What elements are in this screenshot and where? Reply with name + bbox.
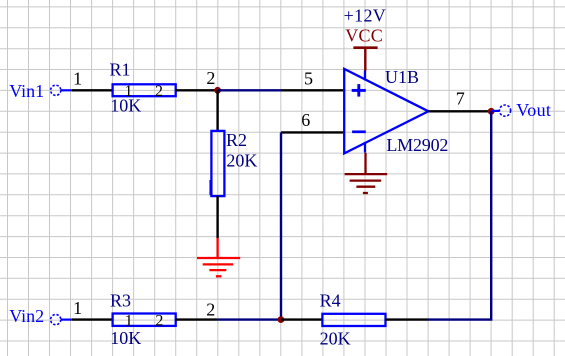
- port Vout: [492, 100, 551, 120]
- wire R2 to ground: [216, 196, 218, 238]
- svg-text:20K: 20K: [320, 329, 351, 349]
- pin 7 of U1B (output): [428, 110, 491, 112]
- svg-text:VCC: VCC: [345, 26, 383, 46]
- pin 1 of R4: [281, 318, 323, 320]
- svg-text:R2: R2: [226, 130, 247, 150]
- wire output to R4 (feedback): [428, 111, 492, 319]
- junction node 2: [214, 87, 221, 94]
- svg-text:20K: 20K: [226, 151, 257, 171]
- feedback wire pin6 down to node: [280, 132, 282, 319]
- ground (op-amp dark red): [345, 153, 388, 193]
- junction at output: [488, 108, 495, 115]
- junction node (inverting input): [278, 316, 285, 323]
- svg-text:R4: R4: [320, 290, 341, 310]
- op-amp U1B: [344, 69, 428, 153]
- svg-text:LM2902: LM2902: [386, 135, 448, 155]
- svg-text:5: 5: [304, 69, 313, 89]
- port Vin1: [9, 81, 72, 101]
- ground (red power ground): [197, 238, 240, 276]
- wire node2 down to R2: [216, 90, 218, 131]
- svg-text:2: 2: [155, 313, 163, 330]
- VCC power symbol: [353, 48, 377, 71]
- svg-text:Vin2: Vin2: [9, 306, 44, 326]
- svg-text:1: 1: [73, 69, 82, 89]
- svg-text:2: 2: [206, 300, 215, 320]
- svg-text:2: 2: [206, 68, 215, 88]
- svg-text:Vout: Vout: [516, 100, 551, 120]
- svg-text:2: 2: [155, 83, 163, 100]
- pin 5 of U1B: [281, 89, 344, 91]
- port Vin2: [9, 306, 72, 326]
- svg-text:Vin1: Vin1: [9, 81, 44, 101]
- resistor R1: [113, 83, 176, 100]
- pin 2 of R4: [386, 318, 428, 320]
- svg-text:+12V: +12V: [344, 6, 387, 26]
- svg-text:R3: R3: [110, 291, 131, 311]
- pin 2 of R3: [176, 318, 218, 320]
- pin 1 of R1: [72, 89, 113, 91]
- svg-text:10K: 10K: [110, 328, 141, 348]
- svg-text:10K: 10K: [110, 96, 141, 116]
- svg-text:6: 6: [301, 110, 310, 130]
- pin 2 of R1: [176, 89, 218, 91]
- pin 1 of R3: [72, 318, 113, 320]
- svg-text:1: 1: [73, 298, 82, 318]
- resistor R3: [113, 313, 176, 330]
- wire node2 to pin5: [218, 89, 281, 91]
- wire R3 to node: [218, 318, 281, 320]
- svg-text:R1: R1: [110, 60, 131, 80]
- resistor R2: [210, 131, 224, 196]
- pin 6 of U1B: [281, 131, 344, 133]
- resistor R4: [322, 314, 385, 326]
- svg-text:7: 7: [456, 89, 465, 109]
- svg-text:U1B: U1B: [385, 67, 419, 87]
